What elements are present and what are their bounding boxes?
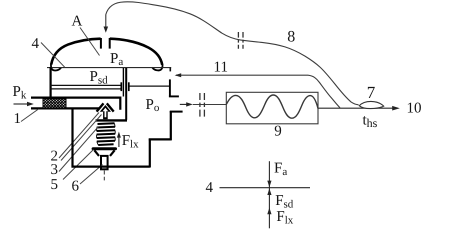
lower body bottom line (72, 166, 150, 168)
output line to box (193, 104, 227, 106)
Fsd up arrowhead (267, 188, 271, 195)
output arrow from Po (180, 103, 188, 105)
leader A (80, 28, 100, 56)
Fa down arrowhead (267, 181, 271, 188)
capillary 8 break symbol (238, 32, 243, 49)
svg-text:3: 3 (51, 162, 59, 178)
line 11 down curve (308, 75, 340, 108)
membrane capsule dome left arc (51, 39, 100, 65)
Po chamber wall vertical (169, 79, 171, 96)
force diagram vertical line (268, 161, 270, 228)
line 11 arrowhead (175, 73, 182, 77)
membrane capsule dome right arc (110, 39, 162, 65)
svg-text:5: 5 (51, 177, 59, 193)
channel top line (31, 98, 120, 110)
rod right line (125, 68, 127, 120)
spring flange 5 (92, 147, 117, 150)
svg-text:4: 4 (32, 36, 40, 52)
leader 5 (63, 150, 94, 180)
leader 1 (21, 109, 39, 122)
feedback line 11 (176, 74, 308, 76)
beam right tick (128, 82, 130, 91)
output port bottom lip (170, 111, 183, 113)
svg-text:ths: ths (363, 113, 378, 131)
step vertical 1 (149, 139, 151, 168)
beam left tick (120, 82, 122, 91)
svg-text:A: A (72, 13, 83, 29)
flapper arrow (100, 105, 111, 119)
spring coil risers (97, 124, 116, 146)
left wall upper (49, 67, 51, 98)
nozzle 2 left jaw (97, 103, 104, 111)
output port top lip (169, 95, 179, 97)
beam right line (130, 85, 171, 87)
Flx up arrowhead (267, 208, 271, 215)
dome right foot curl (152, 64, 162, 70)
dome baseline (47, 67, 171, 69)
capillary 8 arrow into dome (105, 15, 107, 29)
output break symbol (200, 93, 205, 117)
leader 3 (59, 127, 99, 172)
force diagram lever line (220, 187, 311, 189)
svg-text:10: 10 (407, 100, 422, 116)
Pk inlet arrow (14, 103, 29, 105)
svg-text:9: 9 (274, 124, 282, 140)
svg-text:7: 7 (367, 83, 376, 102)
output arrowhead 10 (392, 106, 400, 111)
leader 6 (80, 165, 103, 185)
svg-text:4: 4 (206, 180, 214, 196)
dome left foot curl (51, 64, 61, 71)
adjusting screw 6 body (101, 156, 108, 169)
restrictor 1 hatched block (43, 99, 66, 108)
output line after box (318, 107, 394, 109)
rod left line (122, 68, 124, 97)
leader 4 (41, 43, 65, 68)
screw centerline dashes (103, 171, 105, 181)
damper box 9 (226, 92, 318, 124)
lower body left wall (71, 108, 73, 168)
svg-text:6: 6 (72, 178, 80, 194)
svg-text:8: 8 (287, 29, 295, 46)
baseline right tick (169, 68, 171, 72)
svg-text:11: 11 (214, 59, 228, 75)
svg-text:1: 1 (14, 111, 22, 127)
step vertical 2 (170, 111, 172, 140)
leader 2b (61, 115, 102, 161)
leader 2 (59, 113, 99, 159)
step horizontal (149, 138, 171, 140)
flapper plate bar (96, 119, 127, 121)
label Flx with arrow (118, 137, 120, 147)
nozzle 2 right jaw (107, 103, 114, 111)
dome top gap bar left (100, 38, 102, 49)
beam lower line (50, 88, 121, 90)
beam upper line (50, 84, 121, 86)
sinusoid in box 9 (226, 95, 318, 118)
capillary tube 8 curve (106, 2, 359, 105)
thermal bulb 7 (359, 101, 384, 108)
flange cone right side (110, 150, 115, 156)
dome top gap bar right (109, 38, 111, 49)
spring 3 coil (97, 123, 116, 145)
flange cone left side (94, 150, 99, 156)
channel bottom line (31, 107, 100, 109)
